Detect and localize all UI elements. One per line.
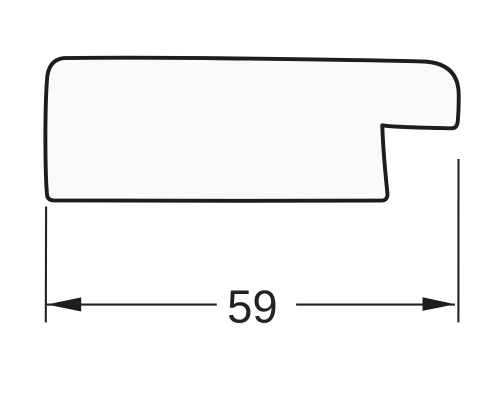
right extension line [457,159,459,322]
left arrowhead [47,297,81,311]
right arrowhead [423,297,456,311]
dimension line left segment [47,304,217,306]
svg-text:59: 59 [227,280,278,332]
left extension line [45,207,47,323]
dimension line right segment [296,304,455,306]
moulding profile outline [45,58,458,201]
